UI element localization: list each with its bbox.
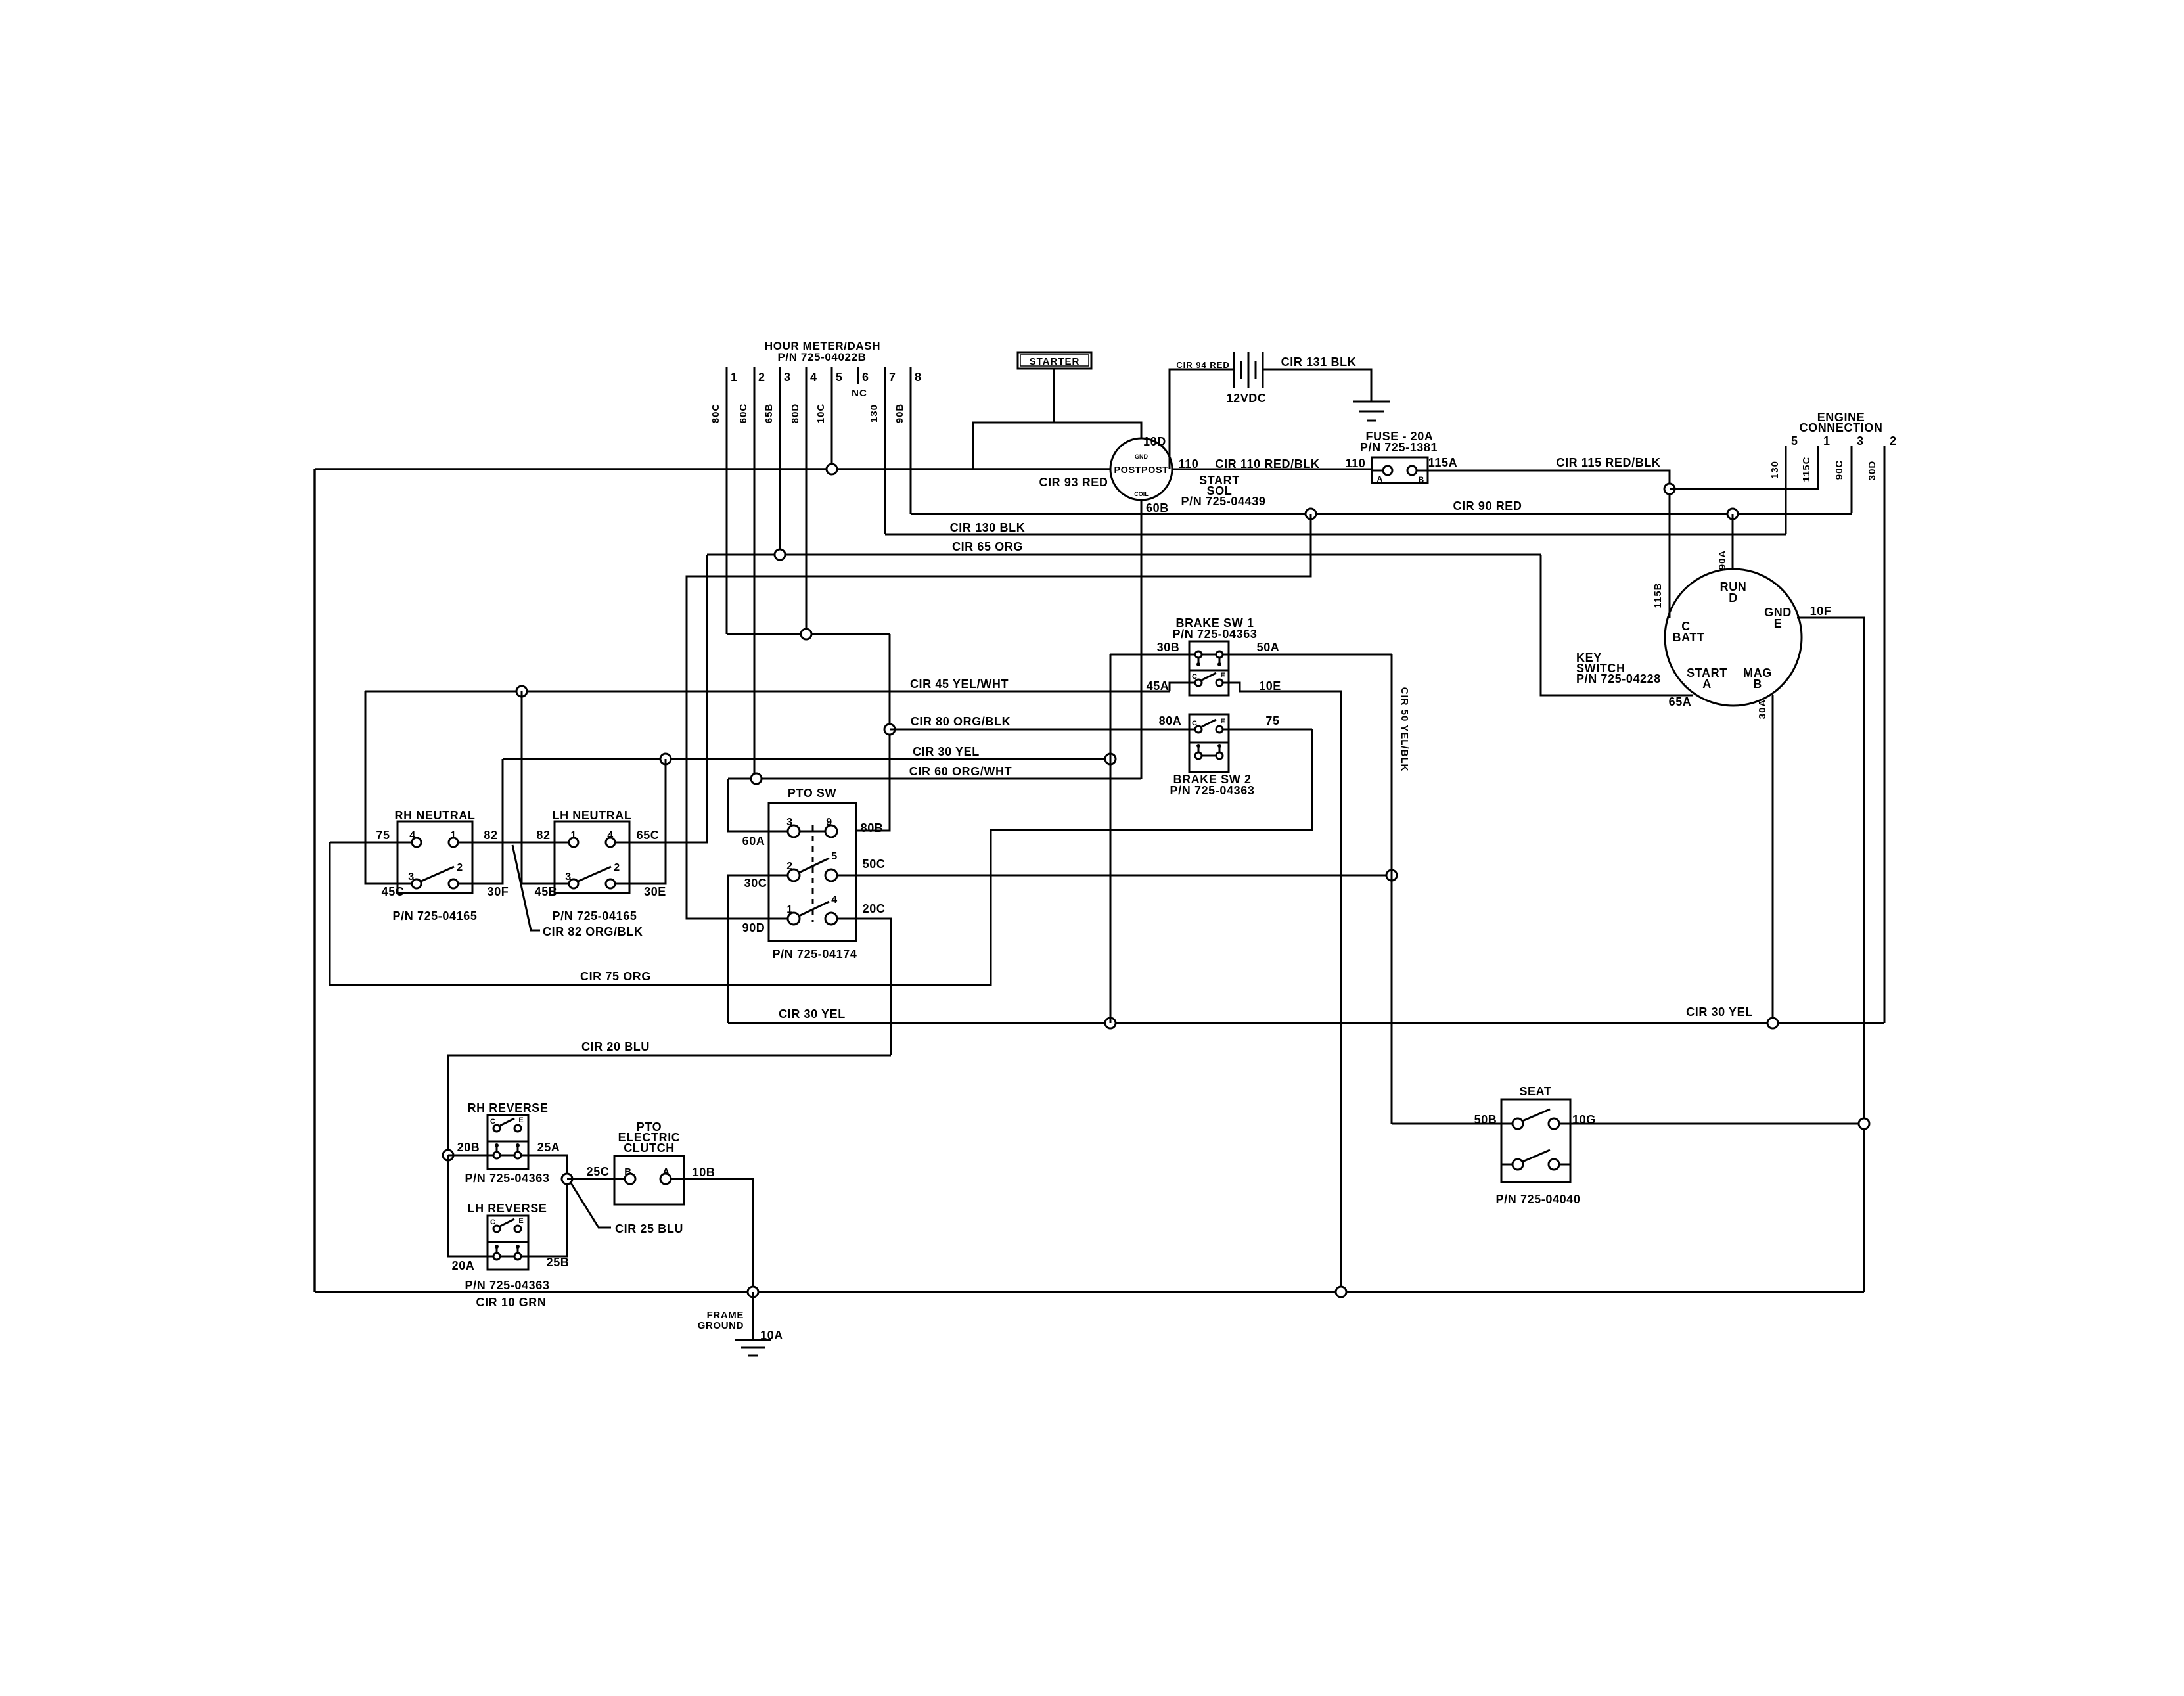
svg-text:80D: 80D <box>790 403 801 424</box>
svg-text:BATT: BATT <box>1672 631 1704 644</box>
svg-text:P/N 725-04363: P/N 725-04363 <box>465 1279 550 1292</box>
wire: LH NEUTRAL switch arm 3-2 <box>578 867 611 881</box>
wire: LH REVERSE arm C-E <box>500 1219 514 1226</box>
node: junction CIR 90 to PTO 90D branch <box>1306 509 1316 519</box>
svg-text:9: 9 <box>826 817 832 828</box>
svg-text:CIR 30 YEL: CIR 30 YEL <box>779 1007 846 1020</box>
wire: CIR 30 YEL upper bus <box>503 758 1110 760</box>
terminal: BRAKE SW 1 B right <box>1216 651 1223 658</box>
svg-text:10A: 10A <box>760 1329 783 1342</box>
node: junction CIR 60 / pin2 60C / 60A <box>751 773 762 784</box>
svg-text:P/N 725-04228: P/N 725-04228 <box>1576 672 1661 685</box>
svg-text:CIR 110 RED/BLK: CIR 110 RED/BLK <box>1215 457 1319 470</box>
svg-text:D: D <box>1729 591 1738 605</box>
wire: 30B lead into BRAKE SW 1 <box>1110 654 1195 656</box>
svg-text:80A: 80A <box>1159 714 1182 727</box>
wire: 50B lead from CIR 50 riser into seat <box>1392 1123 1513 1125</box>
svg-text:3: 3 <box>565 871 572 882</box>
svg-text:SEAT: SEAT <box>1519 1085 1551 1098</box>
wire: 10E lead from BRAKE SW 1 to ground riser <box>1223 683 1341 1287</box>
svg-text:110: 110 <box>1179 457 1199 470</box>
wire: BRAKE SW 2 B-B link <box>1202 755 1216 757</box>
terminal: LH NEUTRAL pin 1 <box>569 838 578 847</box>
svg-text:CIR 75 ORG: CIR 75 ORG <box>580 970 651 983</box>
svg-text:P/N 725-04363: P/N 725-04363 <box>1170 784 1255 797</box>
svg-text:80B: 80B <box>861 821 884 835</box>
svg-text:10B: 10B <box>693 1166 716 1179</box>
svg-text:A: A <box>1377 474 1383 484</box>
wire: BRAKE SW 1 B-B link <box>1202 654 1216 656</box>
wire: 30F drop to RH NEUTRAL pin 2 <box>458 759 503 884</box>
svg-text:C: C <box>1192 673 1197 681</box>
wire: LH REVERSE B-B link <box>500 1256 514 1258</box>
svg-text:P/N 725-04363: P/N 725-04363 <box>465 1172 550 1185</box>
svg-text:1: 1 <box>1823 434 1831 447</box>
wire: CIR 20 BLU run <box>448 1055 891 1155</box>
node: junction pin5/10C on top bus <box>827 464 837 474</box>
svg-text:E: E <box>518 1116 523 1124</box>
svg-text:30F: 30F <box>488 885 509 898</box>
svg-text:CIR 130 BLK: CIR 130 BLK <box>950 521 1026 534</box>
svg-text:25A: 25A <box>537 1141 560 1154</box>
svg-text:CIR 65 ORG: CIR 65 ORG <box>952 540 1023 553</box>
svg-text:30B: 30B <box>1157 641 1180 654</box>
wire: CIR 50 YEL/BLK riser (50A down to seat 50B) <box>1391 654 1393 1124</box>
wire: starter lead down <box>1053 369 1055 423</box>
wire: seat arm row1 <box>1522 1109 1550 1121</box>
node: junction 25A/25B/25C <box>562 1174 572 1184</box>
svg-text:65C: 65C <box>637 829 660 842</box>
terminal: RH REVERSE B right <box>514 1152 521 1158</box>
svg-text:3: 3 <box>1857 434 1864 447</box>
svg-text:130: 130 <box>869 404 880 423</box>
wire: CIR 110 RED/BLK from solenoid to fuse <box>1172 469 1372 470</box>
wire: 25B lead from LH REVERSE up to 25 junction <box>521 1179 567 1256</box>
leader: CIR 82 ORG/BLK callout <box>512 845 540 930</box>
wire: 50C from PTO pin 5 to CIR 50 riser <box>837 875 1392 877</box>
svg-text:P/N 725-04022B: P/N 725-04022B <box>777 351 866 363</box>
terminal: seat row2 right <box>1549 1159 1559 1170</box>
wire: 20A lead from CIR 20 riser into LH REVERSE <box>448 1155 493 1256</box>
wire: 65A drop to key switch START A <box>1541 555 1693 695</box>
node: junction 10E / ground bus <box>1336 1287 1346 1297</box>
wire: 25A lead from RH REVERSE down to 25 junction <box>521 1155 567 1179</box>
svg-text:4: 4 <box>810 371 817 384</box>
svg-text:115A: 115A <box>1428 456 1457 469</box>
wire: CIR 65 ORG bus <box>707 554 1541 556</box>
svg-text:82: 82 <box>484 829 497 842</box>
component: KEY SWITCH P/N 725-04228 <box>1665 569 1802 706</box>
svg-text:NC: NC <box>852 388 867 399</box>
svg-text:45A: 45A <box>1147 679 1170 693</box>
svg-text:10G: 10G <box>1572 1113 1596 1126</box>
component: STARTER box <box>1018 352 1091 369</box>
terminal: LH REVERSE C <box>493 1226 500 1232</box>
svg-text:C: C <box>490 1218 495 1226</box>
svg-text:5: 5 <box>831 851 838 862</box>
node: junction 50C / CIR 50 riser <box>1386 870 1397 881</box>
svg-text:130: 130 <box>1769 461 1781 479</box>
svg-text:6: 6 <box>862 371 869 384</box>
svg-text:75: 75 <box>376 829 390 842</box>
terminal: LH NEUTRAL pin 4 <box>606 838 615 847</box>
wire: 82 link RH pin1 to LH pin1 <box>458 842 569 844</box>
terminal: clutch A <box>660 1174 671 1184</box>
wire: 60A drop to PTO SW pin 3 <box>728 779 788 831</box>
terminal: LH NEUTRAL pin 2 <box>606 879 615 888</box>
svg-text:2: 2 <box>457 862 463 873</box>
wire: main top bus CIR 93 RED (y714) <box>315 468 1110 470</box>
wire: PTO contact 3-9 <box>800 831 825 833</box>
svg-text:CIR 131 BLK: CIR 131 BLK <box>1281 355 1357 369</box>
svg-text:4: 4 <box>409 830 416 841</box>
wire: hour meter pin 3 (65B) vertical <box>779 367 781 555</box>
wire: bottom ground bus CIR 10 GRN <box>315 1291 1864 1293</box>
ground: battery negative ground symbol <box>1353 401 1390 403</box>
wire: 80 net riser down to CIR 80 and PTO 80B <box>856 634 890 831</box>
svg-text:A: A <box>1702 677 1712 691</box>
svg-text:50C: 50C <box>863 858 886 871</box>
svg-text:110: 110 <box>1346 457 1366 470</box>
wire: 90A from CIR 90 down to key switch RUN D <box>1732 514 1734 570</box>
wire: hour meter pin 5 (10C) vertical <box>831 367 833 469</box>
svg-text:3: 3 <box>784 371 791 384</box>
wire: 90 net branch down and across to PTO switch 90D <box>687 514 1311 919</box>
wire: CIR 130 BLK from hour meter pin 7 to engine pin 5 <box>885 534 1786 536</box>
svg-text:B: B <box>624 1166 631 1178</box>
svg-text:2: 2 <box>1890 434 1897 447</box>
svg-text:P/N 725-04174: P/N 725-04174 <box>773 948 857 961</box>
wire: 75 lead into RH NEUTRAL pin 4 <box>330 842 412 844</box>
wire: 30C from PTO pin 2 down to CIR 30 YEL lower <box>728 875 788 1023</box>
svg-text:82: 82 <box>536 829 550 842</box>
svg-text:CIR 60 ORG/WHT: CIR 60 ORG/WHT <box>909 765 1012 778</box>
svg-text:115B: 115B <box>1652 582 1664 608</box>
svg-text:P/N 725-1381: P/N 725-1381 <box>1360 441 1438 454</box>
svg-text:30C: 30C <box>744 877 767 890</box>
wire: 65C drop to LH NEUTRAL <box>614 555 707 842</box>
svg-text:CIR 94 RED: CIR 94 RED <box>1176 360 1230 370</box>
terminal: RH NEUTRAL pin 1 <box>449 838 458 847</box>
svg-text:65B: 65B <box>763 403 775 424</box>
svg-text:CONNECTION: CONNECTION <box>1800 421 1883 434</box>
component: BRAKE SW 2 P/N 725-04363 <box>1189 714 1229 772</box>
svg-text:CIR 25 BLU: CIR 25 BLU <box>615 1222 683 1235</box>
svg-text:E: E <box>1220 718 1225 725</box>
terminal: BRAKE SW 2 B right <box>1216 752 1223 759</box>
svg-text:75: 75 <box>1265 714 1279 727</box>
node: junction pin4 80D on 80 header <box>801 629 811 639</box>
wire: 45B drop to LH NEUTRAL pin 3 <box>522 691 569 884</box>
svg-text:CIR 50 YEL/BLK: CIR 50 YEL/BLK <box>1399 687 1410 772</box>
terminal: RH REVERSE B left <box>493 1152 500 1158</box>
node: junction hour meter pin3 65B on CIR 65 <box>775 549 785 560</box>
node: junction CIR 90 to key switch 90A <box>1727 509 1738 519</box>
terminal: clutch B <box>625 1174 635 1184</box>
svg-text:CIR 115 RED/BLK: CIR 115 RED/BLK <box>1556 456 1660 469</box>
wire: 10B lead from clutch A to ground bus <box>671 1179 753 1292</box>
svg-text:1: 1 <box>570 830 577 841</box>
wire: 45A step into BRAKE SW 1 <box>1170 683 1195 691</box>
svg-text:60B: 60B <box>1146 501 1169 515</box>
wire: hour meter pin 1 (80C) vertical <box>726 367 728 634</box>
node: junction CIR 30 YEL / key switch 30A <box>1767 1018 1778 1028</box>
svg-text:B: B <box>1419 475 1424 484</box>
terminal: seat row1 right <box>1549 1118 1559 1129</box>
wire: hour meter pin 8 (90B) vertical <box>910 367 912 514</box>
leader: CIR 25 BLU callout <box>570 1182 611 1227</box>
svg-text:B: B <box>1753 677 1762 691</box>
svg-text:65A: 65A <box>1669 695 1692 708</box>
wire: 20B lead into RH REVERSE <box>448 1155 493 1157</box>
svg-text:1: 1 <box>731 371 738 384</box>
terminal: fuse B <box>1407 466 1417 475</box>
svg-text:90D: 90D <box>742 921 765 934</box>
wire: PTO switch arm 1-4 <box>799 902 829 916</box>
wire: 75 lead from BRAKE SW 2 E <box>1223 729 1312 731</box>
terminal: LH REVERSE B left <box>493 1253 500 1260</box>
wire: 115C branch to engine connection pin 1 <box>1670 446 1818 489</box>
svg-text:CIR 80 ORG/BLK: CIR 80 ORG/BLK <box>911 715 1011 728</box>
wire: PTO gang dashed link <box>812 825 814 922</box>
wire: 10F from key switch GND E to right vertical and frame ground bus <box>1797 618 1864 1292</box>
terminal: RH NEUTRAL pin 2 <box>449 879 458 888</box>
terminal: PTO pin 2 <box>788 869 800 881</box>
wire: engine pin 2 (30D) vertical down to CIR 30 YEL <box>1884 446 1886 1023</box>
ground: FRAME GROUND <box>752 1292 754 1340</box>
svg-text:7: 7 <box>889 371 896 384</box>
svg-text:30D: 30D <box>1867 461 1878 481</box>
terminal: BRAKE SW 1 B left <box>1195 651 1202 658</box>
svg-text:5: 5 <box>836 371 843 384</box>
terminal: RH REVERSE E <box>514 1125 521 1132</box>
svg-text:1: 1 <box>786 904 793 915</box>
node: junction CIR 30 upper / 30E drop <box>660 754 671 764</box>
svg-text:80C: 80C <box>710 403 721 424</box>
terminal: BRAKE SW 2 C <box>1195 726 1202 733</box>
terminal: PTO pin 3 <box>788 825 800 837</box>
wire: 45C drop to RH NEUTRAL pin 3 <box>365 691 412 884</box>
svg-text:RH REVERSE: RH REVERSE <box>467 1101 548 1114</box>
svg-text:4: 4 <box>607 830 614 841</box>
wire: starter to solenoid post 10D (y643) <box>973 423 1141 469</box>
wire: battery negative CIR 131 BLK to chassis ground <box>1263 369 1371 401</box>
terminal: BRAKE SW 1 E <box>1216 679 1223 686</box>
wire: 50A lead from BRAKE SW 1 to CIR 50 riser <box>1223 654 1392 656</box>
svg-text:CIR 10 GRN: CIR 10 GRN <box>476 1296 546 1309</box>
terminal: PTO pin 5 <box>825 869 837 881</box>
svg-text:3: 3 <box>786 817 793 828</box>
svg-text:C: C <box>490 1118 495 1126</box>
svg-text:STARTER: STARTER <box>1030 356 1080 367</box>
svg-text:CIR 30 YEL: CIR 30 YEL <box>1686 1005 1753 1019</box>
svg-text:90A: 90A <box>1717 550 1728 570</box>
wire: 25C lead to PTO clutch B <box>567 1178 625 1180</box>
svg-text:2: 2 <box>786 861 793 872</box>
svg-text:P/N 725-04165: P/N 725-04165 <box>553 909 637 923</box>
svg-text:GND: GND <box>1135 453 1149 460</box>
node: junction CIR 30 YEL / 30 riser <box>1105 1018 1116 1028</box>
wire: 10G lead from seat to ground riser <box>1559 1123 1864 1125</box>
svg-text:C: C <box>1192 720 1197 727</box>
wire: 20C from PTO pin 4 down to CIR 20 BLU <box>837 919 891 1055</box>
terminal: BRAKE SW 2 E <box>1216 726 1223 733</box>
svg-text:60A: 60A <box>742 835 765 848</box>
svg-text:LH REVERSE: LH REVERSE <box>467 1202 547 1215</box>
svg-text:CIR 30 YEL: CIR 30 YEL <box>913 745 980 758</box>
wire: seat row2 stubs <box>1501 1164 1513 1166</box>
wire: CIR 30 YEL lower bus <box>728 1022 1884 1024</box>
svg-text:115C: 115C <box>1801 456 1812 482</box>
terminal: BRAKE SW 2 B left <box>1195 752 1202 759</box>
svg-text:A: A <box>662 1166 670 1178</box>
wire: seat arm row2 <box>1522 1150 1550 1162</box>
svg-text:P/N 725-04439: P/N 725-04439 <box>1181 495 1266 508</box>
node: junction CIR 30 upper / 30 riser <box>1105 754 1116 764</box>
svg-text:12VDC: 12VDC <box>1226 392 1266 405</box>
wire: 30E drop to LH NEUTRAL pin 2 <box>615 759 666 884</box>
svg-text:POSTPOST: POSTPOST <box>1114 465 1169 476</box>
svg-text:P/N 725-04363: P/N 725-04363 <box>1173 628 1258 641</box>
wire: CIR 75 ORG run (RH 75 to BRAKE SW 2) <box>330 729 1312 985</box>
svg-text:5: 5 <box>1791 434 1798 447</box>
wire: CIR 90 RED from hour meter pin 8 to engine pin 3 <box>911 513 1852 515</box>
svg-text:30E: 30E <box>644 885 666 898</box>
terminal: RH NEUTRAL pin 4 <box>412 838 421 847</box>
svg-text:CIR 82 ORG/BLK: CIR 82 ORG/BLK <box>543 925 643 938</box>
svg-text:RH NEUTRAL: RH NEUTRAL <box>395 809 476 822</box>
svg-text:2: 2 <box>758 371 765 384</box>
svg-text:GROUND: GROUND <box>698 1320 744 1331</box>
svg-text:20A: 20A <box>452 1259 475 1272</box>
svg-text:10E: 10E <box>1259 679 1281 693</box>
terminal: LH NEUTRAL pin 3 <box>569 879 578 888</box>
svg-text:CIR 90 RED: CIR 90 RED <box>1453 499 1522 513</box>
svg-text:1: 1 <box>450 830 457 841</box>
svg-text:90C: 90C <box>1834 460 1845 480</box>
terminal: LH REVERSE B right <box>514 1253 521 1260</box>
wire: hour meter pin 6 stub NC <box>857 367 859 384</box>
node: junction 115 branch to engine pin 1 <box>1664 484 1675 494</box>
svg-text:10F: 10F <box>1810 605 1832 618</box>
svg-text:60C: 60C <box>738 403 749 424</box>
svg-text:8: 8 <box>915 371 922 384</box>
svg-text:10C: 10C <box>815 403 827 424</box>
wire: BRAKE SW 1 arm C-E <box>1202 673 1216 680</box>
svg-text:E: E <box>1774 617 1783 630</box>
node: junction 20B on CIR 20 riser <box>443 1150 453 1160</box>
svg-text:50A: 50A <box>1257 641 1280 654</box>
wire: 30 riser from BRAKE SW1 30B down to CIR 30 YEL lower <box>1110 654 1112 1023</box>
svg-text:COIL: COIL <box>1134 491 1149 497</box>
svg-text:P/N 725-04165: P/N 725-04165 <box>393 909 478 923</box>
terminal: RH NEUTRAL pin 3 <box>412 879 421 888</box>
terminal: seat row2 left <box>1513 1159 1523 1170</box>
svg-text:20B: 20B <box>457 1141 480 1154</box>
component: START SOL solenoid circle P/N 725-04439 <box>1110 438 1172 500</box>
svg-text:CLUTCH: CLUTCH <box>624 1141 675 1155</box>
wire: solenoid coil terminal 60B down to CIR 60 line <box>1141 500 1143 779</box>
svg-text:4: 4 <box>831 894 838 905</box>
svg-text:25B: 25B <box>547 1256 570 1269</box>
svg-text:90B: 90B <box>894 403 905 424</box>
wire: PTO switch arm 2-5 <box>799 858 829 873</box>
wire: engine pin 3 (90C) <box>1851 446 1853 513</box>
wire: BRAKE SW 2 arm C-E <box>1202 720 1216 727</box>
wire: RH REVERSE arm C-E <box>500 1118 514 1126</box>
terminal: LH REVERSE E <box>514 1226 521 1232</box>
svg-text:2: 2 <box>614 862 620 873</box>
svg-text:CIR 45 YEL/WHT: CIR 45 YEL/WHT <box>910 677 1009 691</box>
svg-text:45C: 45C <box>382 885 405 898</box>
svg-text:CIR 93 RED: CIR 93 RED <box>1039 476 1108 489</box>
terminal: fuse A <box>1383 466 1392 475</box>
wire: hour meter pin 2 (60C) vertical <box>754 367 756 779</box>
svg-text:P/N 725-04040: P/N 725-04040 <box>1496 1193 1581 1206</box>
svg-text:CIR 20 BLU: CIR 20 BLU <box>581 1040 650 1053</box>
wire: RH NEUTRAL switch arm 3-2 <box>421 867 454 881</box>
wire: CIR 60 ORG/WHT bus (to solenoid coil 60B) <box>728 778 1141 780</box>
wire: CIR 80 ORG/BLK bus to BRAKE SW 2 <box>890 729 1195 731</box>
wire: engine pin 5 (130) <box>1785 446 1787 534</box>
node: junction 10G / 10F riser <box>1859 1118 1869 1129</box>
svg-text:3: 3 <box>408 871 415 882</box>
terminal: PTO pin 1 <box>788 913 800 925</box>
node: junction 10B / ground bus at frame ground <box>748 1287 758 1297</box>
svg-text:30A: 30A <box>1757 699 1768 720</box>
svg-text:45B: 45B <box>535 885 558 898</box>
node: junction CIR 45 / 45B drop <box>516 686 527 697</box>
svg-text:25C: 25C <box>587 1165 610 1178</box>
terminal: PTO pin 9 <box>825 825 837 837</box>
svg-text:LH NEUTRAL: LH NEUTRAL <box>553 809 632 822</box>
svg-text:PTO SW: PTO SW <box>788 787 836 800</box>
terminal: BRAKE SW 1 C <box>1195 679 1202 686</box>
svg-text:FRAME: FRAME <box>707 1310 744 1321</box>
component: battery 12VDC <box>1170 369 1234 469</box>
wire: hour meter pin 7 (130) vertical <box>884 367 886 534</box>
wire: hour meter pin 4 (80D) vertical <box>806 367 808 634</box>
svg-text:E: E <box>518 1217 523 1225</box>
wire: 30A from key switch MAG B down to CIR 30 YEL <box>1772 695 1774 1023</box>
wire: RH REVERSE B-B link <box>500 1155 514 1157</box>
svg-text:50B: 50B <box>1474 1113 1497 1126</box>
wire: left border vertical (CIR 93 RED bus down to ground bus) <box>313 469 315 1292</box>
wire: CIR 115 RED/BLK from fuse to key switch BATT (115B) <box>1428 470 1670 618</box>
terminal: seat row1 left <box>1513 1118 1523 1129</box>
svg-text:20C: 20C <box>863 902 886 915</box>
wire: CIR 45 YEL/WHT bus <box>365 691 1170 693</box>
wire: 80 net hour meter pins 1+4 header (y965) <box>727 633 890 635</box>
node: junction 80 riser / CIR 80 ORG/BLK <box>884 724 895 735</box>
svg-text:E: E <box>1220 672 1225 679</box>
terminal: PTO pin 4 <box>825 913 837 925</box>
terminal: RH REVERSE C <box>493 1125 500 1132</box>
